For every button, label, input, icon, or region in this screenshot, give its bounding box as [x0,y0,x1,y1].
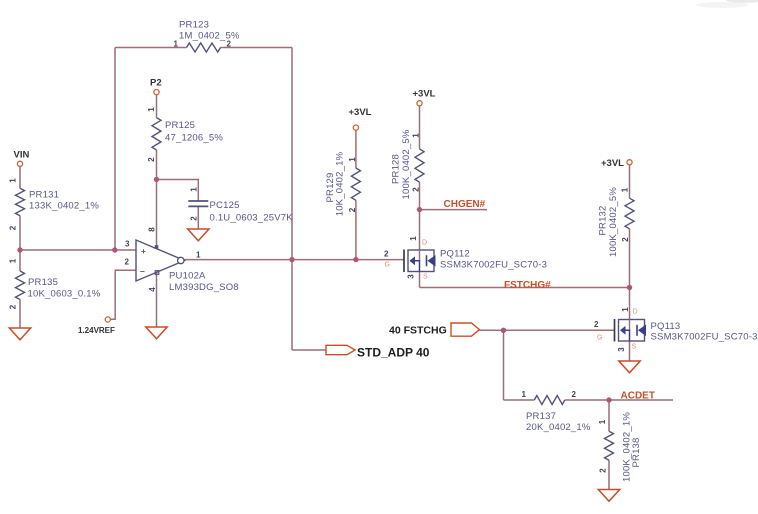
node ACDET [606,397,611,402]
svg-text:100K_0402_5%: 100K_0402_5% [401,129,412,199]
pin P2 [150,78,162,95]
svg-text:2: 2 [190,216,199,221]
svg-text:S: S [423,274,428,281]
svg-text:+: + [141,246,146,256]
node output-feedback [289,257,294,262]
node VIN divider [17,247,22,252]
svg-text:40 FSTCHG: 40 FSTCHG [389,325,447,337]
wire feedback right vertical down to STD_ADP [292,48,326,351]
transistor PQ112 [404,250,436,273]
node CHGEN# [417,207,422,212]
ground op-amp pin4 [146,327,167,339]
svg-text:SSM3K7002FU_SC70-3: SSM3K7002FU_SC70-3 [651,332,758,343]
ground PC125 [188,229,209,241]
wire op-amp pin8 supply [156,180,158,249]
svg-text:PR135: PR135 [28,277,58,288]
svg-text:2: 2 [348,207,357,212]
svg-text:1: 1 [412,133,421,138]
resistor PR128 [391,129,425,199]
svg-text:1: 1 [621,307,630,312]
svg-text:PR138: PR138 [631,437,642,467]
svg-text:+3VL: +3VL [601,158,624,169]
svg-text:10K_0603_0.1%: 10K_0603_0.1% [28,289,101,300]
svg-text:3: 3 [125,240,130,249]
connector STD_ADP 40 [326,345,430,359]
svg-text:D: D [422,240,427,247]
svg-text:8: 8 [148,227,157,232]
svg-text:PR125: PR125 [165,120,195,131]
svg-text:1.24VREF: 1.24VREF [78,326,115,335]
svg-text:2: 2 [227,40,232,49]
svg-text:2: 2 [594,320,599,329]
decorative [696,0,758,8]
resistor PR135 [9,258,101,309]
svg-text:CHGEN#: CHGEN# [444,199,486,210]
wire op-amp pin4 to ground [156,273,158,328]
wire noninverting input row [20,249,136,251]
svg-text:1: 1 [409,236,418,241]
svg-text:PR131: PR131 [29,190,59,201]
resistor PR131 [9,178,100,231]
wire PR129 column [355,130,357,259]
svg-text:1: 1 [9,178,18,183]
power +3VL (PR128) [413,89,436,106]
ground PQ113 source [619,361,640,373]
wire PR132 column [629,165,631,288]
svg-text:G: G [597,335,602,342]
svg-text:1: 1 [522,390,527,399]
wire comparator output row [185,259,405,261]
wire PR125 to PC125 [157,180,199,201]
svg-text:1: 1 [598,419,607,424]
wire VIN column [19,167,21,329]
svg-text:1: 1 [348,157,357,162]
wire CHGEN# stub [420,209,488,211]
wire top feedback rail [115,47,292,49]
resistor PR125 [147,107,223,162]
svg-text:2: 2 [412,187,421,192]
svg-text:10K_0402_1%: 10K_0402_1% [335,151,346,216]
svg-text:PR128: PR128 [391,154,402,184]
svg-text:P2: P2 [150,78,162,89]
svg-text:PU102A: PU102A [169,271,206,282]
svg-text:2: 2 [9,304,18,309]
resistor PR138 [598,412,642,482]
svg-text:D: D [633,309,638,316]
svg-text:100K_0402_5%: 100K_0402_5% [608,187,619,257]
capacitor PC125 [188,187,293,224]
wire PQ113 source to ground [629,342,631,362]
power +3VL (PR132) [601,158,632,169]
op-amp U1 PU102A [125,227,239,293]
svg-text:+3VL: +3VL [413,89,436,100]
svg-text:VIN: VIN [14,150,30,161]
transistor PQ112 labels [384,236,547,281]
transistor PQ113 [615,319,647,342]
svg-text:2: 2 [147,157,156,162]
svg-text:2: 2 [572,390,577,399]
wire PR138 column [608,400,610,490]
svg-text:2: 2 [9,225,18,230]
resistor PR137 [522,390,591,433]
connector 40 FSTCHG [389,323,480,337]
svg-text:20K_0402_1%: 20K_0402_1% [526,422,591,433]
wire PQ112 source to FSTCHG# row [420,272,630,288]
svg-text:2: 2 [125,258,130,267]
wire FSTCHG connector to PQ113 gate [480,329,615,331]
svg-text:1: 1 [196,251,201,260]
svg-text:PQ112: PQ112 [440,249,470,260]
svg-text:3: 3 [407,274,416,279]
svg-text:1: 1 [174,40,179,49]
svg-text:133K_0402_1%: 133K_0402_1% [29,201,99,212]
node FSTCHG gate [501,328,506,333]
node output-PR129 [353,257,358,262]
pin 1.24VREF [78,317,115,335]
resistor PR129 [325,151,360,216]
node feedback-input [112,247,117,252]
svg-text:PR132: PR132 [598,205,609,235]
wire inverting input from 1.24VREF [111,270,136,319]
svg-text:S: S [632,344,637,351]
wire PR137 / ACDET row [504,399,674,401]
pin VIN [14,150,30,167]
svg-text:2: 2 [599,468,608,473]
svg-text:+3VL: +3VL [349,107,372,118]
svg-text:1: 1 [9,258,18,263]
wire PC125 to ground [197,206,199,229]
svg-text:4: 4 [148,287,157,292]
ground PR138 [598,490,619,502]
ground VIN divider [9,328,30,340]
svg-text:2: 2 [621,237,630,242]
wire down from FSTCHG node to PR137 row [503,330,505,400]
node PR125/PC125/pin8 [154,177,159,182]
svg-text:2: 2 [384,250,389,259]
svg-text:LM393DG_SO8: LM393DG_SO8 [169,282,239,293]
transistor PQ113 labels [594,307,758,352]
svg-text:SSM3K7002FU_SC70-3: SSM3K7002FU_SC70-3 [440,260,547,271]
svg-text:FSTCHG#: FSTCHG# [504,280,551,291]
resistor PR132 [598,187,635,257]
svg-text:PR137: PR137 [526,411,556,422]
svg-text:1: 1 [147,107,156,112]
svg-text:PC125: PC125 [210,200,240,211]
svg-text:3: 3 [617,347,626,352]
svg-text:0.1U_0603_25V7K: 0.1U_0603_25V7K [210,213,294,224]
resistor PR123 [174,20,240,53]
wire PR128 column to PQ112 drain [419,106,421,250]
svg-text:ACDET: ACDET [621,391,655,402]
svg-text:STD_ADP 40: STD_ADP 40 [357,346,430,360]
svg-text:47_1206_5%: 47_1206_5% [165,133,223,144]
svg-text:PR123: PR123 [179,20,209,31]
svg-text:PQ113: PQ113 [651,321,681,332]
node FSTCHG# [627,285,632,290]
svg-text:−: − [140,267,145,277]
power +3VL (PR129) [349,107,372,130]
svg-text:G: G [385,262,390,269]
svg-text:1: 1 [190,187,199,192]
wire P2 column [156,95,158,180]
svg-text:1: 1 [621,187,630,192]
wire feedback left vertical [114,48,116,251]
wire PQ113 drain [629,288,631,320]
